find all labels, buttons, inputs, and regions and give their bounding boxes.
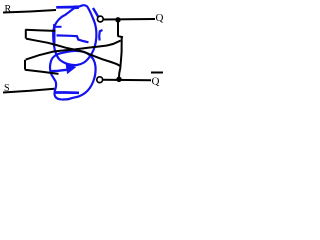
wire Q output	[104, 18, 156, 21]
wire vertical V1 left	[25, 30, 27, 39]
gate U1 top bar fat end	[74, 5, 79, 9]
gate U1 body (top, blue)	[53, 5, 96, 65]
wire stub C into U1	[25, 30, 55, 31]
gate U2 emitter arrow shaft	[51, 70, 67, 71]
gate U1 inner vertical bar	[53, 24, 55, 44]
svg-text:Q: Q	[156, 12, 164, 24]
gate U1 output spur to bubble	[93, 8, 98, 17]
wire from node Q down with jog	[118, 21, 123, 37]
gate U1 top bar	[56, 6, 78, 9]
gate U1 inner stub	[56, 26, 62, 28]
wire vertical V2 left	[24, 60, 26, 70]
wire feedback diagonal to U2 input (upper arm of X)	[26, 41, 121, 60]
wire feedback diagonal to U1 input (lower arm of X)	[26, 39, 120, 66]
wire central vertical between feedbacks	[119, 37, 122, 77]
gate U1 right hook	[99, 30, 102, 41]
overbar of Q-bar	[151, 72, 163, 74]
svg-text:Q: Q	[152, 76, 160, 88]
bubble of U1	[97, 16, 103, 22]
bubble of U2	[97, 77, 103, 83]
wire R input	[3, 10, 56, 13]
junction dot node Q	[115, 17, 120, 22]
wire stub F into U2	[25, 70, 59, 74]
gate U2 bottom bar	[54, 91, 79, 94]
wire Q-bar output	[103, 79, 151, 82]
gate U2 arrowhead	[66, 64, 76, 74]
wire S input	[3, 89, 54, 93]
gate U1 inner lead line	[57, 35, 89, 42]
junction dot node Q-bar	[116, 77, 121, 82]
gate U2 body (bottom, blue)	[50, 51, 96, 100]
